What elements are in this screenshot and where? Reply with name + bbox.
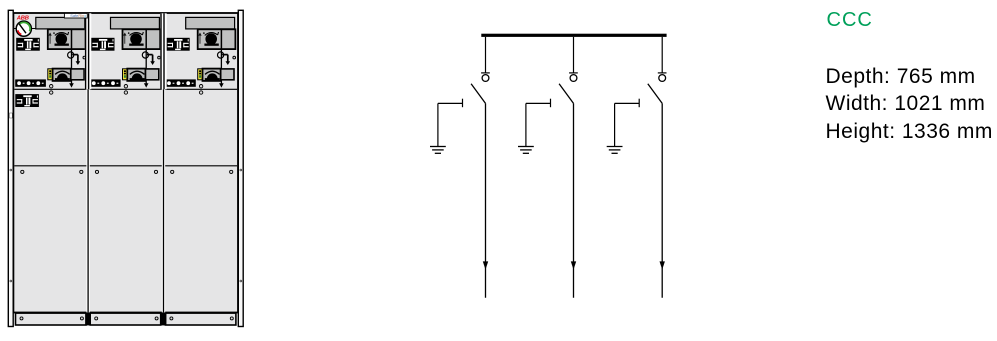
svg-text:ABB: ABB (16, 16, 29, 22)
svg-text:SafeRing: SafeRing (70, 13, 86, 18)
